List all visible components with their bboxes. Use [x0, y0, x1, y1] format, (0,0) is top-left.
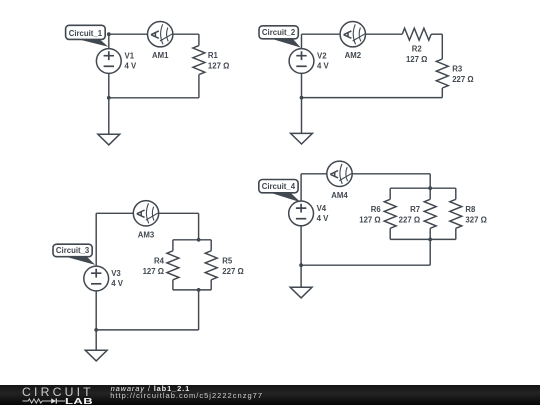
- svg-text:127 Ω: 127 Ω: [208, 62, 229, 71]
- svg-text:Circuit_4: Circuit_4: [262, 182, 296, 191]
- svg-text:R1: R1: [208, 51, 219, 60]
- callout label Circuit_1: [66, 25, 109, 47]
- circuit 3: bottom wire: [96, 329, 198, 331]
- resistor R7: [424, 188, 436, 239]
- svg-text:227 Ω: 227 Ω: [452, 75, 473, 84]
- circuit 3: right feed wire: [198, 213, 200, 240]
- svg-text:Circuit_1: Circuit_1: [69, 29, 103, 38]
- circuit 2: bottom wire: [302, 97, 443, 99]
- circuit 1: bottom wire: [109, 97, 199, 99]
- logo diode: [51, 398, 56, 403]
- ground circuit4: [290, 287, 312, 298]
- node circuit3 parallel top: [197, 238, 201, 242]
- resistor R1: [193, 34, 205, 98]
- circuit 4: right feed wire: [429, 174, 431, 188]
- logo wire: [23, 400, 29, 402]
- svg-text:R3: R3: [452, 65, 463, 74]
- node circuit1 top junction: [107, 32, 111, 36]
- resistor R6: [384, 188, 396, 239]
- svg-text:4 V: 4 V: [111, 279, 124, 288]
- svg-text:Circuit_2: Circuit_2: [262, 28, 296, 37]
- logo wire: [56, 400, 65, 402]
- ground circuit2: [291, 133, 313, 144]
- CircuitLab logo text CIRCUIT: [22, 387, 94, 397]
- svg-text:127 Ω: 127 Ω: [359, 215, 380, 224]
- svg-text:4 V: 4 V: [317, 62, 330, 71]
- node circuit4 parallel bottom: [428, 238, 432, 242]
- svg-text:AM1: AM1: [152, 51, 169, 60]
- svg-text:R7: R7: [410, 205, 420, 214]
- svg-text:V4: V4: [317, 204, 327, 213]
- ground circuit1: [98, 134, 120, 145]
- svg-text:AM3: AM3: [138, 230, 155, 239]
- svg-text:R4: R4: [154, 256, 165, 265]
- svg-text:AM2: AM2: [345, 51, 362, 60]
- circuit 2: left vertical wire through V2: [301, 34, 303, 133]
- resistor R5: [205, 240, 217, 290]
- logo wire: [42, 400, 51, 402]
- node circuit2 bottom junction: [300, 96, 304, 100]
- resistor R8: [450, 188, 462, 239]
- svg-text:227 Ω: 227 Ω: [399, 215, 420, 224]
- ammeter AM4: [327, 161, 352, 200]
- svg-text:4 V: 4 V: [125, 62, 138, 71]
- callout label Circuit_4: [259, 180, 301, 203]
- callout label Circuit_3: [53, 244, 95, 265]
- circuit 3: parallel bottom bar: [173, 289, 211, 291]
- circuit 2: top wire: [302, 33, 403, 35]
- svg-text:R5: R5: [222, 256, 233, 265]
- logo resistor zigzag: [28, 398, 42, 402]
- svg-text:V2: V2: [317, 52, 327, 61]
- circuit 4: left vertical wire through V4: [300, 174, 302, 287]
- voltage source V4 4 V: [289, 201, 329, 226]
- voltage source V3 4 V: [84, 266, 124, 291]
- resistor R3: [436, 34, 448, 97]
- circuit 4: parallel top bar: [390, 187, 456, 189]
- svg-text:127 Ω: 127 Ω: [406, 55, 427, 64]
- ammeter AM1: [148, 22, 173, 61]
- resistor R2: [402, 28, 442, 40]
- CircuitLab logo mini schematic (resistor + diode): [22, 396, 68, 406]
- resistor R4: [167, 240, 179, 290]
- ammeter AM2: [340, 22, 365, 61]
- circuit 4: top wire: [301, 173, 430, 175]
- svg-text:127 Ω: 127 Ω: [143, 267, 164, 276]
- circuit 3: left vertical wire through V3: [95, 213, 97, 350]
- svg-text:227 Ω: 227 Ω: [222, 267, 243, 276]
- svg-text:R8: R8: [465, 205, 476, 214]
- callout label Circuit_2: [259, 26, 301, 48]
- circuit 3: top wire: [96, 212, 198, 214]
- svg-text:AM4: AM4: [331, 191, 348, 200]
- footer metadata: [111, 385, 191, 393]
- ammeter AM3: [133, 201, 158, 240]
- node circuit3 bottom junction: [94, 328, 98, 332]
- svg-text:Circuit_3: Circuit_3: [56, 246, 90, 255]
- circuit 1: left vertical wire through V1: [108, 34, 110, 134]
- ground circuit3: [85, 350, 107, 361]
- circuit 4: bottom wire: [301, 264, 430, 266]
- footer bar: [0, 385, 540, 406]
- voltage source V1 4 V: [96, 49, 137, 74]
- svg-text:327 Ω: 327 Ω: [465, 215, 486, 224]
- svg-text:R6: R6: [371, 205, 382, 214]
- circuit 1: top wire: [109, 33, 199, 35]
- node circuit4 parallel top: [428, 186, 432, 190]
- node circuit3 parallel bottom: [197, 288, 201, 292]
- svg-text:V3: V3: [111, 269, 121, 278]
- circuit 4: parallel bottom bar: [390, 238, 456, 240]
- svg-text:R2: R2: [412, 44, 423, 53]
- circuit 4: bottom feed wire: [429, 239, 431, 265]
- svg-text:V1: V1: [125, 52, 135, 61]
- svg-text:4 V: 4 V: [317, 214, 330, 223]
- circuit 3: parallel top bar: [173, 239, 211, 241]
- node circuit4 bottom junction: [299, 263, 303, 267]
- node circuit1 bottom junction: [107, 96, 111, 100]
- circuit 3: bottom feed wire: [198, 290, 200, 330]
- voltage source V2 4 V: [289, 49, 329, 74]
